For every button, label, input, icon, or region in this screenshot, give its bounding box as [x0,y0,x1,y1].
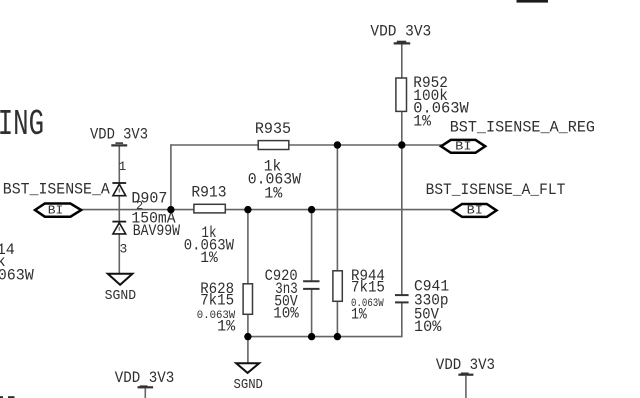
svg-text:VDD 3V3: VDD 3V3 [115,369,174,387]
svg-text:1%: 1% [264,185,282,203]
svg-text:BAV99W: BAV99W [133,222,181,240]
junction dot rail left [244,333,251,340]
svg-text:BI: BI [48,203,64,217]
ground SGND under diode [105,274,137,304]
power symbol VDD_3V3 top-right [370,22,431,43]
svg-text:1: 1 [119,159,127,174]
wire C941 bottom to ground rail [248,302,402,336]
svg-text:VDD 3V3: VDD 3V3 [370,22,431,40]
power symbol VDD_3V3 bottom-middle [115,369,174,398]
junction dot rail C920 [308,333,315,340]
resistor R952 [396,74,469,130]
diode D907 upper half [112,183,126,196]
svg-text:BI: BI [467,204,483,218]
wire R944 branch vertical [336,145,338,337]
svg-text:7k15: 7k15 [200,291,234,309]
wire C920 branch vertical upper [311,210,313,281]
partial resistor labels at left edge (R914) [0,241,34,284]
svg-text:BI: BI [455,139,471,153]
svg-text:BST_ISENSE_A: BST_ISENSE_A [3,181,110,199]
ground SGND under rail [234,363,263,393]
svg-text:0.063W: 0.063W [0,266,34,284]
resistor R913 [184,184,235,267]
svg-text:BST_ISENSE_A_REG: BST_ISENSE_A_REG [450,118,595,136]
svg-text:1%: 1% [351,306,367,324]
svg-text:10%: 10% [414,318,442,336]
wire diode chain vertical [118,146,120,274]
resistor R628 [197,280,253,335]
resistor R935 [248,120,302,203]
port BST_ISENSE_A_REG [441,118,595,153]
svg-text:VDD 3V3: VDD 3V3 [90,126,148,144]
junction dot R944 top [334,141,341,148]
junction dot R952 bottom [398,141,405,148]
diode D907 lower half [112,222,126,234]
junction dot rail R944 [334,333,341,340]
resistor R944 [333,267,385,323]
svg-text:7k15: 7k15 [351,278,385,296]
svg-text:SGND: SGND [105,288,137,304]
svg-text:1%: 1% [217,317,235,335]
junction dot C920 top [308,206,315,213]
wire net BST_ISENSE_A_REG horizontal [171,144,442,146]
svg-text:R913: R913 [191,184,226,202]
wire vertical branch REG to FLT node [170,144,172,209]
power symbol VDD_3V3 bottom-right [436,356,495,398]
capacitor C920 [265,267,320,322]
power symbol VDD_3V3 top-left [90,126,148,146]
port BST_ISENSE_A_FLT [426,181,566,218]
svg-text:BST_ISENSE_A_FLT: BST_ISENSE_A_FLT [426,181,566,199]
svg-text:VDD 3V3: VDD 3V3 [436,356,495,374]
top border bar fragment [517,0,549,3]
bottom-left corner text fragments [0,396,3,398]
svg-text:ING: ING [0,105,44,145]
wire R952 C941 vertical upper [401,44,403,296]
svg-text:1%: 1% [413,112,431,130]
capacitor C941 [395,278,449,337]
title text ING [0,105,44,145]
junction dot REG branch [167,206,174,213]
port BST_ISENSE_A [3,181,110,218]
svg-text:SGND: SGND [234,377,263,393]
wire net BST_ISENSE_A_FLT horizontal [81,209,452,211]
wire R628 branch vertical [247,210,249,363]
svg-text:10%: 10% [273,304,299,322]
junction dot R913 right [244,206,251,213]
svg-text:3: 3 [120,241,128,256]
wire C920 branch vertical lower [311,289,313,336]
svg-text:R935: R935 [255,120,291,138]
svg-text:1%: 1% [200,249,218,267]
